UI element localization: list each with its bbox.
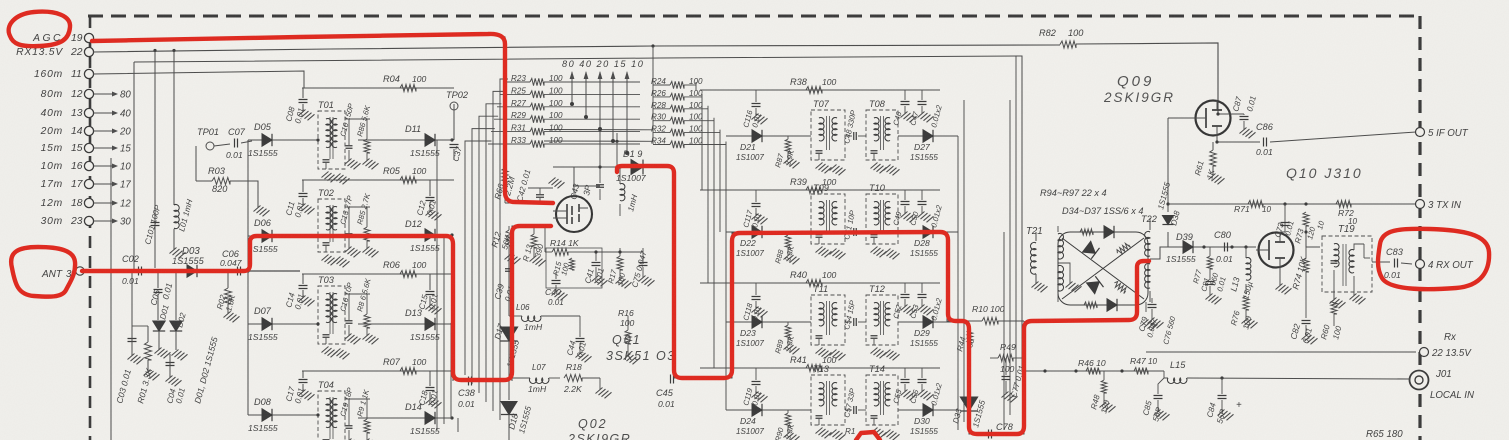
capacitor C55 C56 0.01x2 <box>891 368 944 407</box>
red circle around AGC <box>9 12 70 47</box>
diode D11 1S1555 <box>358 124 452 158</box>
red circle around RX OUT <box>1378 229 1489 289</box>
diode D02 <box>170 271 188 360</box>
diode D29 1S1555 <box>898 316 958 348</box>
wire AGC line under red <box>93 34 553 203</box>
transistor Q09 JFET <box>1196 100 1231 136</box>
terminal 16 10m <box>41 161 132 173</box>
transformer T09 <box>811 183 846 259</box>
wire RX13.5V rail to R82 <box>93 43 1218 114</box>
transformer T22 <box>1141 214 1168 302</box>
wire Q02 area stubs <box>509 356 628 440</box>
capacitor C03 0.01 <box>114 271 143 405</box>
wire rx 13.5V to terminal 22 <box>1146 351 1416 353</box>
resistor R88 3.3K <box>773 232 799 265</box>
terminal 11 160m <box>34 69 94 80</box>
capacitor C118 0.01 row R40 <box>741 283 767 322</box>
label Q10 J310 <box>1286 165 1363 181</box>
inductor L08 1mH <box>618 165 639 216</box>
resistor R60 100 <box>1319 290 1343 341</box>
test point TP01 <box>197 127 219 150</box>
wire Q01 source row <box>545 226 643 254</box>
capacitor C12 0.01 <box>415 180 441 220</box>
resistor R13 390 <box>521 226 545 266</box>
dashed board border left <box>89 16 92 440</box>
resistor R39 100 <box>700 177 940 194</box>
terminal 12 80m <box>41 89 132 101</box>
diode D14 1S1555 <box>358 402 452 436</box>
capacitor C04 0.01 <box>165 354 187 405</box>
wire Q09 gate feed <box>1168 118 1196 212</box>
terminal 13 40m <box>41 108 132 120</box>
resistor R02 1.5K <box>215 271 239 322</box>
wire rx13.5 bottom <box>1146 351 1420 353</box>
resistor R14 1K <box>545 238 580 256</box>
transformer T04 <box>318 380 345 440</box>
diode D05 1S1555 <box>248 122 318 158</box>
label R110 22 <box>845 427 858 436</box>
inductor L06 1mH <box>509 303 560 332</box>
capacitor C87 0.01 <box>1216 95 1258 138</box>
capacitor C07 0.01 <box>214 127 252 160</box>
diode D07 1S1555 <box>248 306 318 342</box>
red trace Q01 output path <box>617 166 1149 434</box>
transformer T10 <box>866 183 900 259</box>
transformer T12 <box>866 284 900 360</box>
diode D33 1S1555 <box>951 397 987 429</box>
red trace AGC path <box>92 34 553 203</box>
transistor Q01 dual-gate MOSFET <box>553 167 600 232</box>
capacitor C83 0.01 <box>1384 247 1412 280</box>
resistor R44 56 <box>955 321 976 353</box>
resistor R61 1K <box>1193 142 1224 184</box>
resistor R73 120 <box>1293 212 1326 247</box>
label 1S1555 D38 <box>1156 181 1172 211</box>
resistor R15 100 <box>546 248 602 288</box>
resistor R49 100 <box>990 342 1024 374</box>
transformer T03 <box>318 275 345 344</box>
resistor R38 100 <box>700 77 940 94</box>
wire inner top rail <box>134 56 1022 370</box>
resistor R04 100 <box>302 74 454 92</box>
resistor R76 100 <box>1229 296 1257 331</box>
capacitor C18 0.01 <box>417 371 441 408</box>
wire under red Q01 output <box>453 167 1024 434</box>
diode D23 1S1007 <box>726 316 811 348</box>
label Q01 <box>606 333 676 363</box>
diode D28 1S1555 <box>898 226 958 258</box>
dashed board border top <box>88 15 1420 18</box>
capacitor C06 0.047 <box>220 249 243 276</box>
resistor R05 100 <box>302 166 454 184</box>
inductor L15 <box>1164 360 1410 383</box>
test point TP02 <box>446 90 468 140</box>
resistor R06 100 <box>302 260 454 278</box>
inductor L01 1mH <box>170 198 195 258</box>
transformer T11 <box>811 284 846 360</box>
terminal 19 AGC <box>32 33 93 44</box>
label D34-D37 <box>1062 206 1143 216</box>
capacitor C45 0.01 <box>656 375 675 410</box>
diode ring D34-D37 R94-R97 <box>1058 226 1148 311</box>
capacitor C46 C47 0.01x2 <box>891 90 944 129</box>
resistor R66 2.2M <box>492 158 517 203</box>
terminal 22 Rx 13.5V <box>1420 332 1473 359</box>
capacitor C05 0.01 <box>148 271 174 318</box>
capacitor C119 0.01 row R41 <box>741 368 767 407</box>
resistor R10 100 <box>958 304 1024 325</box>
red mark bottom <box>856 432 880 440</box>
capacitor C40 0.01 <box>545 272 568 307</box>
capacitor C52 C53 0.01x2 <box>891 283 944 322</box>
wire x111 vertical <box>110 158 112 440</box>
terminal 18 12m <box>41 198 132 210</box>
red blob around ANT <box>11 247 75 297</box>
resistor R12 56K <box>489 226 520 264</box>
transformer T13 <box>811 364 846 440</box>
capacitor C02 0.01 <box>122 254 142 286</box>
capacitor C44 0.01 <box>560 316 592 362</box>
capacitor C51 10P <box>842 209 866 241</box>
capacitor C54 15P <box>842 299 866 331</box>
wire bus bundle middle <box>696 82 726 410</box>
wire D39 row <box>1168 232 1256 249</box>
wire ladder cross rows <box>544 128 653 143</box>
resistor R40 100 <box>700 270 940 287</box>
capacitor C41 0.01 <box>583 252 607 286</box>
transistor Q10 JFET <box>1256 232 1306 294</box>
resistor ladder R24-R34 <box>651 46 726 148</box>
wire band select verticals <box>570 71 630 155</box>
components beside T04 <box>316 386 453 440</box>
diode D38 <box>1162 202 1181 226</box>
transformer T08 <box>866 99 900 175</box>
resistor R74 10K <box>1290 247 1309 318</box>
terminal 4 RX OUT <box>1416 260 1474 272</box>
resistor R90 3.3K <box>773 410 799 440</box>
capacitor C86 0.01 <box>1215 122 1416 157</box>
capacitor C38 0.01 <box>458 377 476 410</box>
terminal 15 15m <box>41 143 132 155</box>
components beside T01 <box>316 102 453 185</box>
wire ANT input line <box>84 269 300 272</box>
capacitor C43 3P <box>568 167 604 200</box>
components beside T02 <box>316 192 453 268</box>
transformer T21 <box>1026 226 1082 302</box>
capacitor C37 <box>450 104 464 163</box>
wire 160m feed <box>93 71 304 88</box>
wire T19 out <box>1372 261 1390 263</box>
resistor R41 100 <box>700 355 940 372</box>
resistor R47 10 <box>1130 356 1158 375</box>
diode D24 1S1007 <box>726 404 811 436</box>
resistor R87 3.9K <box>773 136 799 169</box>
terminal 22 RX13.5V <box>16 47 93 58</box>
transformer T07 <box>811 99 846 175</box>
resistor R48 120 <box>1089 371 1115 415</box>
capacitor C48 330P <box>842 109 866 145</box>
resistor R77 560 <box>1191 247 1228 304</box>
terminal 3 TX IN <box>1416 200 1461 212</box>
wire bus bundle left <box>437 79 508 432</box>
terminal 14 20m <box>40 126 132 138</box>
capacitor C79 0.047 <box>1137 298 1177 346</box>
terminal J01 LOCAL IN <box>1410 369 1474 401</box>
diode D01 <box>153 304 171 358</box>
resistor R16 100 <box>618 308 640 364</box>
resistor R18 2.2K <box>563 362 612 398</box>
capacitor C101 100P <box>143 203 162 268</box>
red trace ANT path <box>82 226 551 380</box>
capacitor C73 0.01 <box>1273 204 1296 239</box>
label Q02 <box>567 417 631 440</box>
wire TX IN line <box>1168 202 1416 205</box>
capacitor C75 0.047 <box>630 248 654 289</box>
diode D22 1S1007 <box>726 226 811 258</box>
diode D12 1S1555 <box>358 219 452 253</box>
capacitor C80 0.01 <box>1214 230 1233 264</box>
capacitor C11 0.01 <box>284 180 314 219</box>
capacitor C57 33P <box>842 387 866 419</box>
diode D08 1S1555 <box>248 397 318 433</box>
diode D06 1S1555 <box>248 218 318 254</box>
resistor R72 10 <box>1336 201 1358 227</box>
resistor R01 3.3K <box>132 326 160 405</box>
wire x134 down to ANT <box>133 62 135 271</box>
capacitor C14 0.01 <box>284 274 314 311</box>
red arrow on D33 <box>0 0 1 1</box>
wire bus bundle right <box>958 56 1016 430</box>
capacitor C49 C50 0.01x2 <box>891 190 944 229</box>
capacitor C77 0.01 <box>1002 358 1027 402</box>
transformer T19 <box>1322 224 1372 308</box>
transformer T01 <box>318 100 345 169</box>
terminal 17 17m <box>41 179 132 191</box>
transformer T14 <box>866 364 900 440</box>
capacitor C08 0.01 <box>284 88 314 125</box>
inductor L13 150u <box>1228 247 1254 301</box>
diode D13 1S1555 <box>358 308 452 342</box>
capacitor C15 0.01 <box>417 274 441 314</box>
diode D21 1S1007 <box>726 130 811 162</box>
diode D39 1S1555 <box>1166 232 1196 264</box>
wire local-in line <box>1022 369 1164 372</box>
capacitor C42 0.01 <box>505 168 565 203</box>
wire band bus down x174 <box>173 51 175 206</box>
resistor R46 10 <box>1078 358 1106 375</box>
resistor R89 3.3K <box>773 322 799 355</box>
resistor R82 100 <box>1039 28 1084 48</box>
label R65 180 <box>1366 429 1403 440</box>
transformer T02 <box>318 188 345 252</box>
capacitor C84 56P <box>1205 378 1242 425</box>
capacitor C116 0.01 row R38 <box>741 90 767 129</box>
capacitor C17 0.01 <box>284 371 314 405</box>
diode D19 1S1007 <box>553 130 673 183</box>
label Q09 <box>1103 73 1175 105</box>
capacitor C117 0.01 row R39 <box>741 190 767 229</box>
resistor R71 10 <box>1234 201 1272 215</box>
label band numbers <box>562 59 644 69</box>
diode D27 1S1555 <box>898 130 958 162</box>
capacitor C78 <box>989 422 1014 439</box>
wire Q10 drain node <box>1280 226 1320 247</box>
red arrow on D17 <box>0 0 1 1</box>
diode D17 1S1555 <box>492 258 521 380</box>
terminal 5 IF OUT <box>1416 128 1469 140</box>
resistor ladder R23-R33 <box>488 74 640 148</box>
terminal 23 30m <box>41 216 132 228</box>
components beside T03 <box>316 277 453 360</box>
capacitor C39 0.01 <box>492 269 516 303</box>
wire band bus down x155 <box>154 51 156 217</box>
terminal 37 ANT <box>41 267 84 280</box>
resistor R03 820 <box>196 146 270 216</box>
label R94-R97 <box>1040 188 1107 198</box>
diode D30 1S1555 <box>898 404 958 436</box>
diode D18 1S1555 <box>501 380 533 435</box>
diode D03 1S1555 <box>172 246 205 277</box>
dashed board border right <box>1418 16 1421 440</box>
label D01 D02 1S1555 <box>192 336 219 405</box>
inductor L07 1mH <box>509 363 560 394</box>
capacitor C82 0.01 <box>1288 321 1317 345</box>
wire band feed column <box>247 140 249 415</box>
resistor R07 100 <box>302 357 454 375</box>
resistor R17 100 <box>606 248 631 288</box>
capacitor C85 56P <box>1141 378 1169 423</box>
